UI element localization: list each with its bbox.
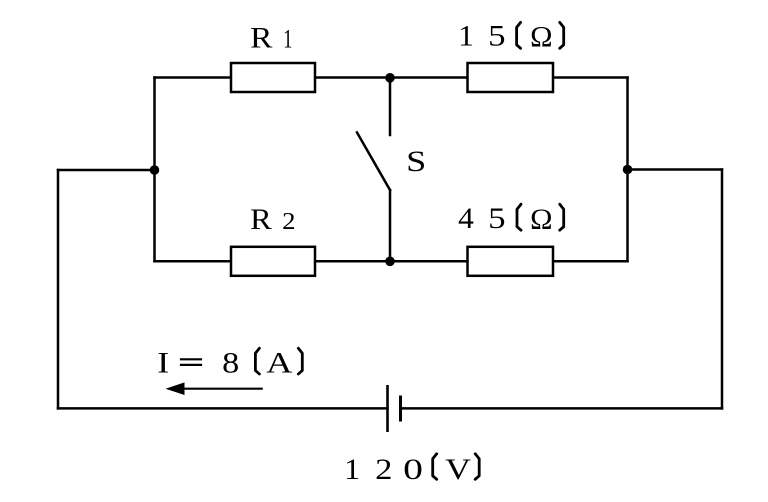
svg-text:V: V: [445, 453, 471, 486]
battery V1 long plate: [386, 385, 389, 432]
wire: right inner vertical: [626, 78, 629, 262]
wire: right stub to outer rail: [628, 168, 723, 171]
switch S lower terminal wire: [389, 190, 392, 261]
wire: bottom branch rail left segment: [155, 260, 232, 263]
wire: left outer vertical: [57, 170, 60, 408]
node: bottom switch junction: [385, 257, 395, 267]
wire: top rail left segment: [155, 76, 232, 79]
wire: bottom branch rail right segment: [552, 260, 628, 263]
battery V1 short plate: [399, 396, 402, 422]
wire: right outer vertical: [721, 170, 724, 409]
svg-text:I: I: [157, 346, 169, 379]
resistor R1: [231, 63, 315, 92]
wire: bottom rail left of battery: [58, 407, 388, 410]
wire: top rail right segment: [552, 76, 628, 79]
svg-text:A: A: [266, 346, 292, 379]
label value 45 ohm: [458, 202, 564, 236]
wire: left stub to outer rail: [58, 169, 155, 172]
svg-text:1: 1: [283, 24, 292, 53]
resistor 45 ohm: [468, 247, 554, 276]
svg-text:S: S: [406, 145, 426, 178]
svg-text:2: 2: [282, 208, 295, 234]
resistor R2: [231, 247, 315, 276]
switch S upper terminal wire: [389, 78, 392, 136]
svg-text:Ω: Ω: [530, 202, 552, 236]
svg-text:8: 8: [222, 345, 239, 379]
node: top switch junction: [385, 73, 395, 83]
svg-text:R: R: [250, 21, 273, 54]
svg-text:2: 2: [375, 453, 392, 486]
svg-text:1: 1: [458, 19, 474, 52]
node: left mid junction: [150, 165, 160, 175]
wire: bottom branch rail middle segment: [315, 260, 468, 263]
current arrow I: [166, 382, 263, 395]
wire: bottom rail right of battery: [401, 407, 723, 410]
wire: left inner vertical: [153, 78, 156, 262]
label R2: [250, 202, 295, 236]
label battery 120 V: [344, 452, 479, 486]
svg-text:0: 0: [403, 452, 423, 485]
resistor 15 ohm: [468, 63, 554, 92]
label R1: [250, 21, 292, 54]
svg-text:5: 5: [488, 20, 505, 53]
svg-text:1: 1: [344, 452, 360, 486]
label value 15 ohm: [458, 19, 564, 53]
svg-text:R: R: [250, 202, 272, 236]
node: right mid junction: [623, 165, 633, 175]
svg-text:4: 4: [458, 202, 474, 235]
svg-text:5: 5: [488, 202, 505, 235]
wire: top rail middle segment: [315, 76, 468, 79]
svg-text:Ω: Ω: [530, 20, 552, 54]
switch S open blade: [357, 133, 390, 191]
label current I = 8 A: [157, 345, 302, 379]
